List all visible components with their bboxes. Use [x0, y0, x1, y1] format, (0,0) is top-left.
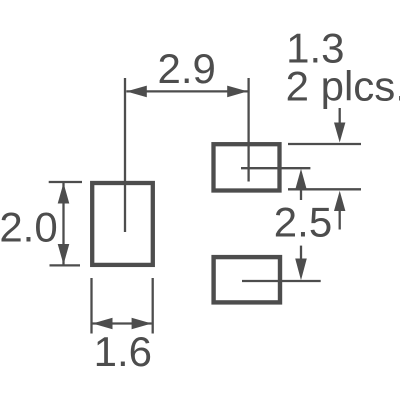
dimension 2.0 top tick: [49, 181, 82, 183]
pad 2 vertical center line: [247, 78, 249, 182]
dimension 2.0 arrow shaft: [62, 183, 64, 265]
pad 1 (left rectangle): [92, 183, 153, 265]
pad 1 center line: [124, 78, 126, 232]
pad 2 (top-right rectangle): [214, 144, 280, 190]
arrowhead 1.3 up (below bottom line): [334, 191, 345, 211]
arrowhead 1.6 right: [132, 318, 152, 330]
svg-text:2.9: 2.9: [158, 45, 216, 92]
dimension 1.3 lower arrow shaft: [339, 209, 341, 230]
pad 2 horizontal center line: [241, 167, 310, 169]
svg-text:2.0: 2.0: [0, 204, 58, 251]
dimension 2.0 bottom tick: [50, 264, 81, 266]
dimension 1.6 left extension line: [90, 278, 92, 334]
dimension 2.5 lower arrow shaft: [300, 246, 302, 259]
dimension 1.6 line: [93, 322, 152, 324]
arrowhead 1.6 left: [93, 318, 113, 330]
arrowhead 2.0 up: [58, 183, 70, 204]
svg-text:1.6: 1.6: [94, 328, 152, 375]
svg-text:2 plcs.: 2 plcs.: [286, 62, 400, 109]
arrowhead 2.5 down: [295, 259, 307, 281]
dimension 1.3 top extension line: [288, 143, 361, 145]
dimension 2.5 upper arrow shaft: [300, 187, 302, 200]
arrowhead 2.9 left: [126, 86, 147, 98]
arrowhead 2.0 down: [58, 244, 70, 265]
svg-text:2.5: 2.5: [274, 199, 332, 246]
dimension 1.3 upper arrow shaft: [339, 108, 341, 124]
dimension 1.6 right extension line: [152, 278, 154, 334]
dimension 1.3 bottom extension line: [288, 188, 361, 190]
arrowhead 1.3 down (above top line): [334, 123, 345, 143]
pad 3 horizontal center line: [242, 280, 321, 282]
pad 3 (bottom-right rectangle): [214, 257, 280, 302]
dimension 2.9 line: [126, 90, 247, 92]
arrowhead 2.9 right: [227, 86, 247, 98]
arrowhead 2.5 up: [295, 169, 307, 190]
